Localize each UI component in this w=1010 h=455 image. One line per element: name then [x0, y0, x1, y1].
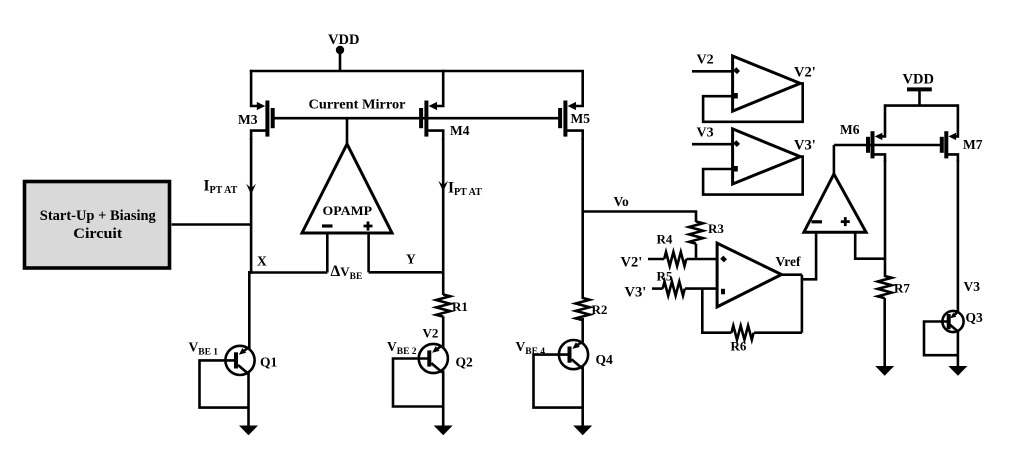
svg-text:M3: M3: [238, 112, 258, 127]
svg-text:M4: M4: [450, 123, 470, 138]
transistor M5: [560, 70, 583, 140]
ground (R7): [875, 366, 894, 376]
wire R7 to ground: [883, 298, 886, 367]
svg-text:Circuit: Circuit: [73, 226, 122, 242]
svg-text:OPAMP: OPAMP: [323, 203, 373, 218]
svg-text:R2: R2: [592, 302, 608, 317]
resistor R3: [689, 222, 703, 244]
wire R4 to amp plus input: [687, 258, 718, 261]
wire M6/M7 supply rail: [885, 104, 958, 107]
start-up block: [25, 182, 170, 269]
wire node Y to R1: [442, 272, 445, 295]
svg-text:R4: R4: [657, 232, 673, 247]
svg-text:R1: R1: [452, 299, 468, 314]
wire M6 drain down through R7 node: [884, 160, 887, 277]
svg-text:V3: V3: [697, 126, 714, 141]
wire op-amp inverting input stub: [326, 233, 329, 273]
resistor R1: [436, 295, 450, 317]
svg-text:M6: M6: [840, 122, 860, 137]
svg-text:R5: R5: [657, 269, 673, 284]
wire R2 to Q4 emitter: [581, 318, 584, 345]
wire U3 plus stub to R7 top: [855, 232, 885, 259]
transistor Q1: [225, 346, 254, 375]
svg-text:R6: R6: [731, 339, 747, 354]
svg-text:Vo: Vo: [614, 194, 630, 209]
svg-text:V3': V3': [625, 285, 647, 301]
wire start-up to node X column: [172, 223, 252, 226]
wire M4 drain to node Y: [442, 138, 445, 272]
op-amp U2 (difference amp): [717, 243, 781, 307]
resistor R6: [732, 326, 754, 340]
wire M5 drain to Vo node: [581, 138, 584, 299]
ground (Q4): [573, 426, 592, 436]
wire Q3 base diode loop: [924, 322, 958, 356]
svg-text:Current Mirror: Current Mirror: [309, 98, 406, 113]
wire Q1 base diode loop: [200, 360, 249, 407]
svg-text:VDD: VDD: [903, 72, 934, 88]
svg-text:R7: R7: [894, 281, 910, 296]
transistor M4: [421, 70, 443, 140]
resistor R7: [878, 276, 892, 298]
wire Q1 collector down: [247, 373, 250, 427]
wire V3 input: [692, 143, 733, 146]
wire R6 to Vref leg: [754, 331, 802, 334]
wire node X to op-amp minus: [250, 271, 327, 274]
wire A2 feedback loop: [703, 157, 803, 195]
wire Vref node down to R6: [801, 275, 804, 333]
wire current-mirror gate rail: [273, 117, 560, 120]
wire Q2 base diode loop: [393, 359, 443, 407]
op-amp U3 (output driver): [804, 174, 866, 232]
wire R6 feedback left leg: [702, 289, 731, 333]
resistor R4: [664, 252, 686, 266]
svg-text:X: X: [257, 254, 267, 269]
svg-text:V2': V2': [621, 255, 643, 271]
buffer amp A2 (V3 follower): [733, 129, 801, 184]
resistor R5: [663, 282, 685, 296]
svg-text:M5: M5: [571, 111, 591, 126]
wire op-amp non-inverting input stub: [367, 233, 370, 272]
transistor Q3: [942, 311, 963, 332]
transistor Q4: [559, 340, 588, 369]
ground (Q3): [948, 366, 967, 376]
transistor M7: [942, 104, 958, 162]
wire Q4 base diode loop: [534, 355, 583, 408]
power VDD (right): [903, 72, 934, 106]
wire R1 to Q2 emitter: [442, 316, 445, 348]
wire R5 to amp minus input: [685, 287, 717, 290]
wire gate rail to op-amp output: [346, 118, 349, 145]
svg-text:Y: Y: [406, 252, 416, 267]
wire M7 drain down to Q3: [957, 160, 960, 313]
wire U3 minus stub to Vref: [802, 232, 816, 279]
ground (Q2): [434, 426, 453, 436]
svg-text:V2: V2: [423, 326, 439, 341]
wire node Y (op-amp plus to M4 column): [369, 271, 445, 274]
current arrow I_PTAT left: [246, 184, 256, 195]
ground (Q1): [239, 426, 258, 436]
svg-text:R3: R3: [708, 221, 724, 236]
wire V2 input: [692, 70, 733, 73]
svg-text:M7: M7: [963, 137, 983, 152]
svg-text:Start-Up + Biasing: Start-Up + Biasing: [40, 208, 157, 224]
transistor Q2: [419, 344, 448, 373]
wire Q3 collector to ground: [957, 330, 960, 367]
svg-text:Q3: Q3: [966, 310, 984, 325]
wire Q2 collector down: [442, 371, 445, 427]
buffer amp A1 (V2 follower): [733, 56, 801, 111]
wire U2 output to node: [780, 273, 802, 276]
wire R3 to plus-input node: [695, 244, 698, 259]
svg-text:VDD: VDD: [328, 32, 359, 48]
svg-text:V2: V2: [697, 53, 714, 68]
svg-text:Vref: Vref: [776, 254, 801, 269]
resistor R2: [576, 298, 590, 320]
wire node X down to Q1 emitter: [248, 271, 251, 349]
svg-text:V3: V3: [964, 279, 981, 294]
wire V3' to R5: [652, 287, 663, 290]
wire U3 output to M6/M7 gate rail: [833, 145, 836, 174]
wire Q4 collector down: [581, 367, 584, 427]
power VDD (main): [328, 32, 359, 71]
wire M3 drain to node X: [250, 138, 253, 274]
svg-text:Q2: Q2: [456, 355, 474, 370]
wire top supply rail: [250, 70, 582, 73]
wire M6/M7 gate rail: [834, 144, 942, 147]
transistor M6: [868, 104, 885, 162]
svg-text:V2': V2': [794, 65, 816, 81]
current arrow I_PTAT right: [438, 181, 448, 192]
svg-text:Q4: Q4: [596, 352, 614, 367]
wire Vo to R3: [583, 212, 696, 223]
svg-text:V3': V3': [794, 138, 816, 154]
op-amp U1 OPAMP: [302, 144, 392, 233]
wire A1 feedback loop: [703, 83, 803, 121]
wire V2' to R4: [648, 258, 664, 261]
svg-text:Q1: Q1: [260, 355, 278, 370]
transistor M3: [251, 70, 273, 140]
